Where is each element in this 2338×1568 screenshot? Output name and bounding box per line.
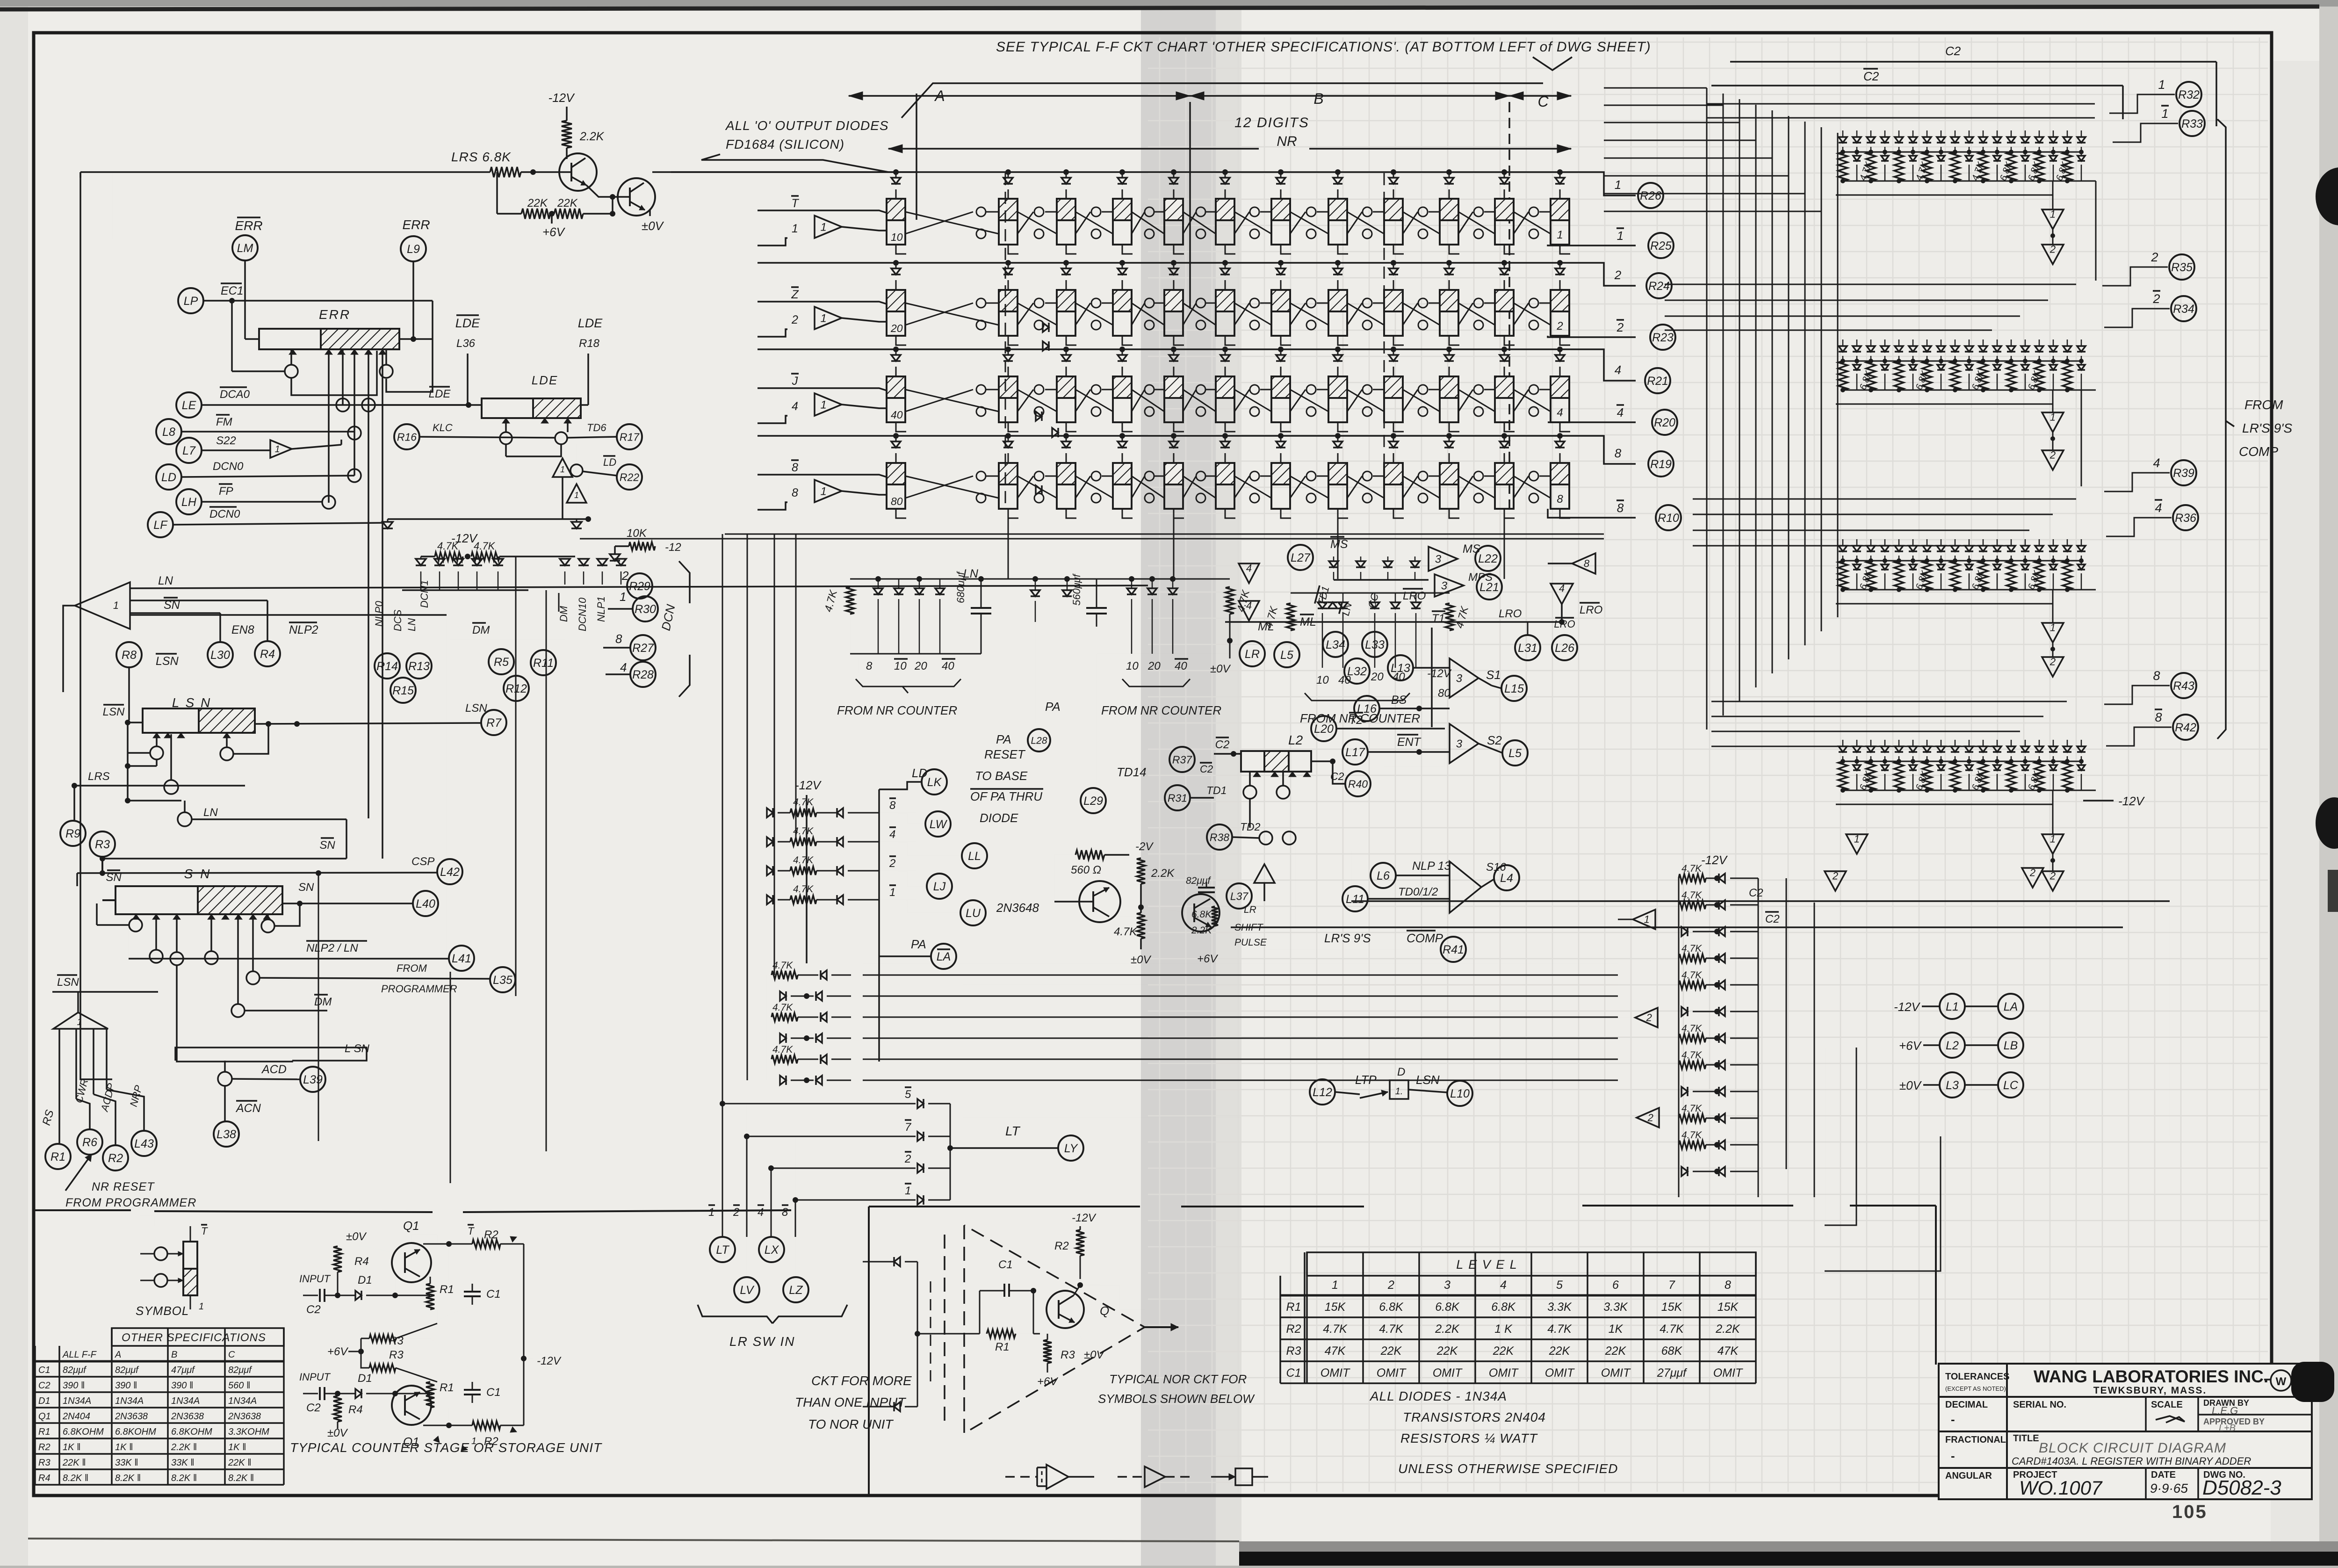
svg-text:DCA0: DCA0	[220, 388, 250, 401]
group divider wire	[725, 534, 1604, 535]
net circle L42	[437, 859, 462, 884]
wire long mid rows	[963, 963, 1618, 964]
diode into row 2	[571, 522, 582, 528]
svg-text:-12V: -12V	[537, 1355, 562, 1367]
wire to circle	[2104, 473, 2170, 491]
FF cell row3 col12	[1551, 376, 1569, 422]
svg-text:+6V: +6V	[1197, 953, 1218, 965]
row 1 input labels	[791, 196, 799, 210]
wire	[505, 418, 507, 432]
PA ladder row 2	[780, 991, 786, 1001]
svg-text:2N3638: 2N3638	[115, 1411, 148, 1422]
svg-text:4: 4	[1617, 405, 1624, 419]
wire	[1923, 1044, 1940, 1046]
svg-text:TYPICAL COUNTER STAGE OR: TYPICAL COUNTER STAGE OR STORAGE UNIT	[290, 1440, 602, 1455]
svg-text:OTHER SPECIFICATIONS: OTHER SPECIFICATIONS	[122, 1331, 266, 1344]
coupling wires row3 col2	[1017, 390, 1057, 412]
svg-text:2: 2	[1646, 1012, 1652, 1024]
svg-text:DCN0: DCN0	[209, 508, 240, 520]
coupling wires row2 col11	[1514, 303, 1551, 325]
svg-text:T1: T1	[1432, 612, 1445, 625]
resistor 2.2K	[562, 121, 572, 148]
svg-text:ENT: ENT	[1397, 736, 1422, 749]
svg-text:1: 1	[1644, 914, 1650, 925]
ladder right row 2	[1679, 901, 1706, 909]
svg-text:SN: SN	[319, 839, 335, 852]
svg-text:1K ‖: 1K ‖	[228, 1442, 246, 1452]
svg-text:22K: 22K	[1605, 1344, 1627, 1358]
svg-text:SN: SN	[298, 881, 314, 894]
capacitor C1 top	[472, 1284, 473, 1292]
net circle L16 / BS	[1354, 696, 1379, 721]
cell bottom stub row4 col11	[1504, 509, 1515, 518]
svg-text:L10: L10	[1450, 1087, 1470, 1100]
svg-text:10: 10	[891, 231, 903, 243]
ladder right row 9	[1681, 1087, 1688, 1096]
svg-text:R22: R22	[620, 471, 639, 483]
svg-text:ERR: ERR	[319, 307, 351, 322]
FF cell row1 col4	[1113, 199, 1132, 245]
svg-text:R1: R1	[38, 1427, 51, 1437]
net circle R7	[481, 710, 506, 735]
coupling wires row4 col10	[1458, 476, 1495, 498]
transistor Q2	[1182, 894, 1220, 932]
PA ladder row 6	[780, 1076, 786, 1085]
cell bottom stub row1 col2	[1008, 245, 1018, 254]
svg-text:4.7K: 4.7K	[1323, 1322, 1348, 1336]
net circle LF / DCN0bar	[148, 512, 173, 537]
lower feed wire	[388, 518, 588, 520]
dashed NOR triangle	[964, 1225, 1145, 1433]
svg-text:LR'S 9'S: LR'S 9'S	[1324, 931, 1371, 945]
svg-text:R1: R1	[51, 1150, 65, 1163]
wire	[1335, 1092, 1360, 1094]
svg-text:1: 1	[820, 221, 826, 233]
wire ENT	[1368, 751, 1450, 753]
cell bottom stub row2 col10	[1449, 336, 1459, 345]
svg-text:8.2K ‖: 8.2K ‖	[228, 1473, 254, 1483]
svg-text:R32: R32	[2178, 88, 2200, 101]
net circle R35	[2169, 254, 2194, 280]
row 1 input buffer	[815, 216, 842, 238]
binder hole middle	[2316, 797, 2338, 849]
ladder right row 12	[1681, 1167, 1688, 1176]
wire DMbar	[231, 1004, 245, 1017]
svg-text:L4: L4	[1500, 872, 1513, 885]
output wire row2 true	[1548, 262, 1604, 263]
top bus	[850, 578, 1230, 580]
svg-text:22K: 22K	[527, 197, 548, 210]
row 2 input buffer	[815, 307, 842, 329]
wire to circle	[2106, 518, 2172, 536]
svg-text:2: 2	[733, 1206, 739, 1219]
svg-text:DECIMAL: DECIMAL	[1945, 1400, 1988, 1410]
net circle LL	[962, 843, 987, 868]
diode row2 col4	[1122, 263, 1123, 268]
svg-text:22K ‖: 22K ‖	[228, 1458, 251, 1468]
resistor bank	[1838, 152, 1847, 181]
matrix bottom bus	[1843, 790, 2096, 791]
svg-text:3: 3	[1441, 579, 1448, 592]
svg-text:2: 2	[1556, 320, 1563, 332]
svg-text:TOLERANCES: TOLERANCES	[1945, 1372, 2009, 1382]
svg-text:1 K: 1 K	[1494, 1322, 1513, 1336]
wire PA	[879, 955, 931, 957]
svg-text:L13: L13	[1391, 662, 1410, 675]
svg-text:47K: 47K	[1325, 1344, 1346, 1358]
bottom page edge line	[28, 1539, 1239, 1541]
triangle 4 left pair	[1239, 564, 1259, 583]
svg-text:+6V: +6V	[542, 225, 566, 239]
svg-text:L9: L9	[407, 243, 420, 256]
LT row 5	[905, 1087, 911, 1101]
svg-text:LZ: LZ	[789, 1284, 803, 1297]
svg-text:1: 1	[2050, 412, 2056, 423]
wire long B	[963, 1017, 1635, 1018]
cell bottom stub row4 col7	[1281, 509, 1291, 518]
svg-text:1: 1	[2050, 209, 2056, 220]
svg-text:T: T	[468, 1225, 475, 1237]
svg-text:D5082-3: D5082-3	[2202, 1476, 2281, 1499]
cell bottom stub row3 col11	[1504, 422, 1515, 432]
node LRObar 2	[1580, 603, 1602, 616]
inter-block vertical 1-2	[2095, 181, 2097, 281]
diode row4 col12	[1559, 436, 1561, 441]
FF cell row1 col6	[1216, 199, 1234, 245]
wire T1	[1431, 628, 1433, 727]
svg-text:T: T	[201, 1225, 208, 1237]
net circle L6	[1371, 863, 1396, 888]
svg-text:LDE: LDE	[532, 373, 558, 387]
wire	[127, 766, 129, 801]
svg-text:FROM: FROM	[2244, 397, 2283, 412]
leader line right	[1533, 57, 1572, 70]
svg-text:390 ‖: 390 ‖	[171, 1380, 193, 1391]
net circle L33	[1362, 632, 1387, 657]
top page edge line	[0, 7, 2319, 9]
svg-text:C1: C1	[998, 1258, 1013, 1271]
svg-text:4.7K: 4.7K	[1114, 925, 1137, 938]
cell bottom stub row3 col10	[1449, 422, 1459, 432]
FF cell row4 col5	[1164, 463, 1183, 509]
svg-text:1: 1	[820, 485, 826, 498]
cell bottom stub row2 col11	[1504, 336, 1515, 345]
net circle R14	[375, 653, 400, 679]
resistor R1 bottom	[426, 1382, 434, 1408]
FF cell row1 col5	[1164, 199, 1183, 245]
coupling wires row4 col6	[1234, 476, 1271, 498]
wire collector top	[419, 1244, 420, 1250]
svg-text:T2: T2	[1349, 714, 1363, 727]
svg-text:NR RESET: NR RESET	[92, 1180, 155, 1193]
coupling wires row4 col1	[905, 476, 999, 498]
svg-text:SYMBOL: SYMBOL	[136, 1304, 189, 1318]
diode row1 col9	[1393, 172, 1394, 178]
svg-text:TD2: TD2	[1240, 821, 1261, 833]
wire	[500, 1243, 524, 1245]
svg-text:L29: L29	[1083, 795, 1103, 808]
net circle R19	[1648, 451, 1674, 477]
svg-text:RESISTORS ¼ WATT: RESISTORS ¼ WATT	[1400, 1431, 1538, 1445]
node label 1	[2161, 106, 2169, 121]
FF cell row3 col6	[1216, 376, 1234, 422]
wire	[1922, 1005, 1940, 1007]
capacitor 680uuf	[981, 579, 982, 608]
wire	[292, 445, 341, 449]
FF cell row1 col12	[1551, 199, 1569, 245]
net circle LA	[1998, 994, 2023, 1019]
wire L7	[202, 449, 270, 451]
wire long A	[963, 1117, 1637, 1118]
svg-text:R41: R41	[1443, 943, 1464, 956]
ladder drops	[747, 813, 748, 1080]
matrix lower bus2	[1836, 603, 2053, 605]
row 4 input labels	[791, 460, 799, 474]
svg-text:R20: R20	[1654, 416, 1675, 429]
coupling wires row1 col6	[1234, 212, 1271, 234]
svg-text:LR SW IN: LR SW IN	[729, 1334, 795, 1349]
svg-text:L.E.G: L.E.G	[2212, 1405, 2238, 1416]
diode row2 col12	[1559, 263, 1561, 268]
svg-text:-12V: -12V	[2118, 794, 2145, 808]
PA ladder row 4	[780, 1033, 786, 1043]
svg-text:2: 2	[1647, 1112, 1653, 1124]
circle junction LD	[570, 464, 583, 477]
svg-text:7: 7	[905, 1121, 912, 1134]
net circle R9	[60, 821, 86, 846]
wire trunk 1168	[546, 590, 547, 1151]
svg-text:R25: R25	[1650, 239, 1672, 253]
svg-text:+6V: +6V	[1899, 1039, 1922, 1053]
cell bottom stub row2 col12	[1560, 336, 1570, 345]
svg-text:6.8K: 6.8K	[1435, 1301, 1460, 1314]
svg-text:C1: C1	[38, 1365, 51, 1375]
wire	[421, 556, 435, 557]
svg-text:4: 4	[1500, 1279, 1507, 1292]
coupling wires row2 col10	[1458, 303, 1495, 325]
svg-text:40: 40	[942, 660, 954, 672]
svg-text:±0V: ±0V	[1210, 663, 1231, 675]
svg-text:T: T	[791, 197, 799, 210]
wire to circle	[2104, 309, 2170, 327]
wire	[566, 107, 568, 121]
svg-text:82μμf: 82μμf	[1186, 875, 1211, 886]
svg-text:1: 1	[1557, 229, 1563, 241]
svg-text:LM: LM	[237, 242, 253, 255]
wire tail 1	[1791, 1048, 1826, 1221]
ladder row 2	[767, 866, 773, 875]
svg-text:1K ‖: 1K ‖	[63, 1442, 80, 1452]
node LSNbar left	[103, 705, 125, 718]
arrow output	[1145, 1326, 1178, 1328]
svg-text:R30: R30	[635, 603, 656, 616]
svg-text:L5: L5	[1508, 747, 1522, 760]
net circle R42	[2173, 715, 2198, 740]
svg-text:NR: NR	[1277, 134, 1297, 149]
flip-flop LSN	[143, 708, 255, 733]
array vertical select line 1	[1005, 173, 1006, 509]
MS diode bus	[1334, 579, 1429, 581]
svg-text:FD1684 (SILICON): FD1684 (SILICON)	[726, 137, 844, 152]
input join	[917, 1262, 918, 1407]
svg-text:LC: LC	[2003, 1079, 2019, 1092]
ladder row 1	[767, 895, 773, 904]
svg-text:L30: L30	[210, 649, 230, 662]
net circle R26	[1638, 183, 1663, 208]
svg-text:MS: MS	[1463, 542, 1480, 556]
svg-text:Q: Q	[1100, 1304, 1109, 1318]
brace group1	[856, 679, 961, 686]
svg-text:S N: S N	[184, 867, 212, 881]
svg-text:NLP 13: NLP 13	[1412, 860, 1451, 873]
wire LSNbar	[128, 722, 143, 723]
resistor 4.7K (2)	[471, 552, 499, 561]
svg-text:LSN: LSN	[1416, 1073, 1440, 1087]
svg-text:22K: 22K	[1549, 1344, 1571, 1358]
net circle R1	[45, 1144, 71, 1169]
net circle L5b	[1502, 740, 1528, 766]
svg-text:C: C	[1537, 93, 1549, 110]
coupling wires row4 col2	[1017, 476, 1057, 498]
svg-text:R2: R2	[38, 1442, 51, 1452]
diode row4 col6	[1225, 436, 1226, 441]
net circle R11	[531, 650, 556, 675]
net circle LZ	[783, 1277, 808, 1302]
svg-text:6.8K: 6.8K	[1491, 1301, 1516, 1314]
svg-text:390 ‖: 390 ‖	[115, 1380, 137, 1391]
wire CSP	[77, 873, 437, 873]
row 4 input wires	[758, 475, 887, 477]
svg-text:R5: R5	[494, 656, 509, 669]
svg-text:C: C	[228, 1350, 235, 1360]
faint graph ruling	[1148, 37, 2268, 1492]
lower region left box edge	[868, 1207, 870, 1494]
diode row2 col9	[1393, 263, 1394, 268]
set input arrows	[289, 349, 296, 354]
net circle L32	[1344, 658, 1370, 684]
svg-text:+6V: +6V	[327, 1345, 348, 1358]
FF cell row4 col8	[1328, 463, 1347, 509]
PA wire long 4	[863, 1038, 1618, 1039]
net circle L3	[1940, 1072, 1965, 1098]
coupling wires row3 col10	[1458, 390, 1495, 412]
coupling wires row4 col5	[1183, 476, 1216, 498]
svg-text:2: 2	[1616, 320, 1624, 334]
cell bottom stub row2 col8	[1338, 336, 1348, 345]
wire	[566, 148, 568, 159]
output wire row4 comp	[1548, 509, 1636, 518]
net circle L5	[1274, 642, 1299, 667]
wire LH	[202, 501, 322, 503]
FF cell row2 col7	[1271, 290, 1290, 336]
svg-text:22K ‖: 22K ‖	[62, 1458, 86, 1468]
cell bottom stub row1 col8	[1338, 245, 1348, 254]
svg-text:L36: L36	[456, 337, 476, 350]
svg-text:2: 2	[1832, 870, 1838, 882]
svg-text:R3: R3	[38, 1458, 51, 1468]
svg-text:LF: LF	[153, 519, 168, 532]
ladder right row 7	[1679, 1034, 1706, 1042]
FF cell row4 col11	[1495, 463, 1514, 509]
wire LDEbar	[375, 404, 482, 406]
transistor Q nor	[1046, 1291, 1084, 1328]
svg-text:PA: PA	[911, 937, 926, 951]
title block row4 dividers	[2145, 1468, 2147, 1499]
svg-text:C2: C2	[1215, 738, 1230, 751]
inverter 1	[2042, 834, 2064, 854]
coupling wires row4 col11	[1514, 476, 1551, 498]
svg-text:TD6: TD6	[587, 422, 606, 434]
svg-text:RESET: RESET	[984, 747, 1026, 761]
output wire row1 comp	[1548, 245, 1636, 246]
wire R27	[603, 647, 630, 649]
matrix3 feeders	[1693, 499, 2076, 500]
svg-text:R37: R37	[1172, 753, 1192, 766]
svg-text:L33: L33	[1365, 638, 1385, 651]
cell bottom stub row3 col4	[1122, 422, 1133, 432]
svg-text:1: 1	[199, 1301, 204, 1312]
svg-text:4.7K: 4.7K	[1379, 1322, 1404, 1336]
svg-text:L1: L1	[1946, 1000, 1959, 1013]
svg-text:R3: R3	[95, 838, 110, 851]
svg-text:15K: 15K	[1661, 1301, 1683, 1314]
svg-text:ML: ML	[1300, 615, 1316, 629]
svg-text:3: 3	[1456, 672, 1463, 685]
junction dots	[1840, 788, 1845, 793]
net circle LM	[232, 235, 258, 260]
svg-text:SN: SN	[106, 871, 122, 884]
wire LT out	[950, 1147, 1058, 1149]
node label 8	[1616, 500, 1624, 515]
svg-text:ACD: ACD	[261, 1063, 287, 1076]
net circle L7 / S22	[176, 438, 202, 463]
svg-text:±0V: ±0V	[1084, 1349, 1105, 1361]
diode row3 col9	[1393, 349, 1394, 355]
svg-text:ANGULAR: ANGULAR	[1945, 1471, 1992, 1481]
svg-text:-12V: -12V	[1072, 1212, 1097, 1224]
svg-text:LY: LY	[1064, 1142, 1079, 1155]
wire EC1 drop	[231, 301, 233, 371]
cell bottom stub row1 col3	[1066, 245, 1076, 254]
coupling wires row4 col9	[1403, 476, 1440, 498]
svg-text:R2: R2	[1286, 1322, 1301, 1336]
svg-text:ERR: ERR	[235, 218, 262, 233]
wire LD	[181, 476, 354, 477]
svg-text:2: 2	[904, 1153, 911, 1165]
or-circle left	[285, 365, 298, 378]
svg-text:3: 3	[1444, 1279, 1450, 1292]
wire C2bar top	[1711, 85, 2123, 87]
wire	[1923, 1084, 1940, 1086]
svg-text:4.7K: 4.7K	[1681, 1103, 1702, 1114]
svg-text:ALL F-F: ALL F-F	[62, 1350, 97, 1360]
wire SNbar	[102, 858, 346, 860]
svg-text:10: 10	[1316, 674, 1329, 686]
cell bottom stub row4 col9	[1393, 509, 1404, 518]
matrix junction bus	[1843, 761, 2081, 762]
wire bus	[402, 589, 528, 591]
coupling wires row1 col5	[1183, 212, 1216, 234]
wire drops from ERR	[328, 349, 330, 503]
svg-text:L8: L8	[162, 426, 175, 439]
net circle L38	[214, 1121, 239, 1147]
svg-text:8.2K ‖: 8.2K ‖	[171, 1473, 197, 1483]
svg-text:C2: C2	[1749, 887, 1763, 899]
node label 4	[889, 827, 896, 841]
svg-text:4: 4	[1246, 563, 1252, 574]
svg-text:27μμf: 27μμf	[1657, 1366, 1688, 1380]
svg-text:20: 20	[890, 322, 903, 334]
